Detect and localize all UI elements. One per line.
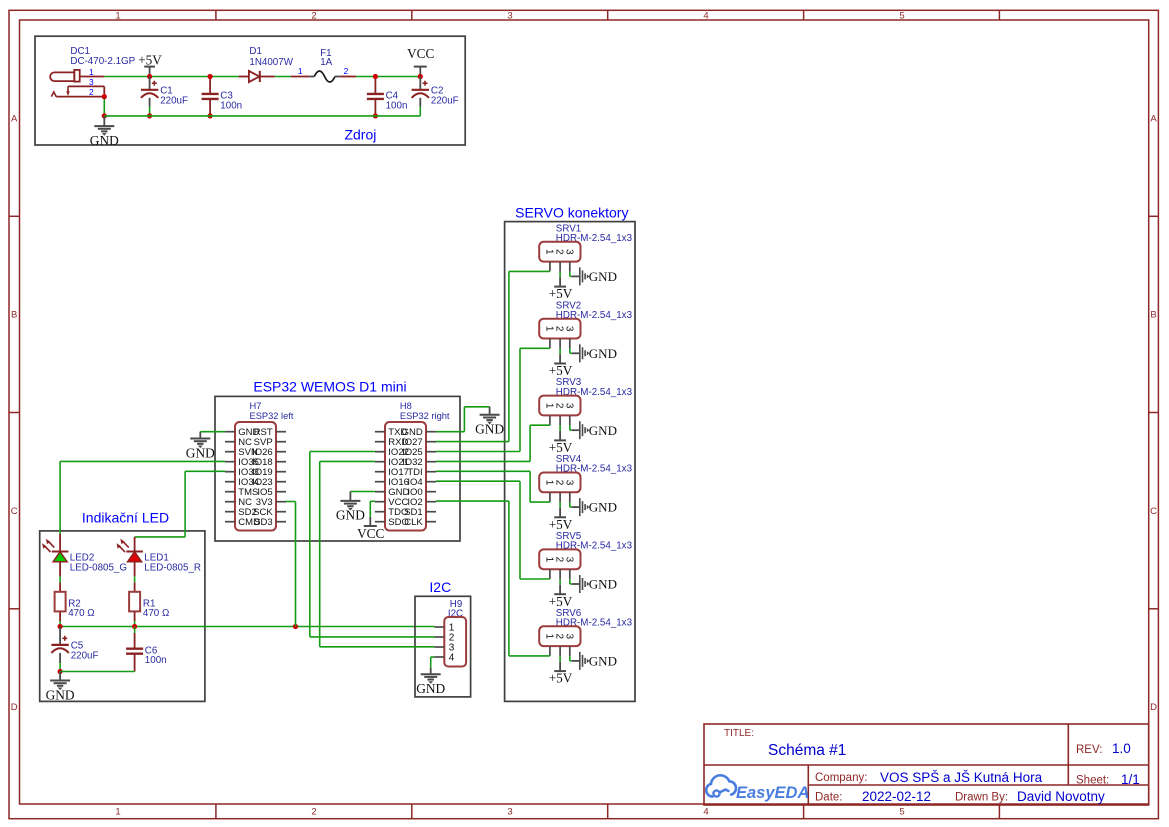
svg-text:+5V: +5V: [549, 363, 573, 378]
svg-text:1: 1: [544, 480, 555, 486]
wire SRV5 pin2 to +5V: [559, 579, 561, 594]
ground GND in LED section: [46, 672, 75, 703]
svg-text:SERVO konektory: SERVO konektory: [515, 205, 628, 221]
svg-text:VCC: VCC: [357, 526, 384, 541]
wire H8 pin1 to GND top right: [436, 407, 490, 432]
wire I2C pin4 to GND: [431, 657, 435, 668]
svg-text:A: A: [1150, 113, 1157, 124]
pin stubs SRV5: [550, 569, 570, 579]
svg-text:EasyEDA: EasyEDA: [736, 784, 809, 802]
LED LED2: [42, 539, 127, 592]
svg-text:GND: GND: [589, 577, 617, 592]
svg-text:1A: 1A: [320, 57, 332, 68]
resistor R2 470R: [55, 592, 95, 627]
wire H8 pin4 to I2C pin3: [320, 461, 435, 646]
svg-text:+5V: +5V: [138, 52, 162, 67]
connector SRV1 HDR-M-2.54_1x3: [539, 223, 632, 261]
svg-text:1: 1: [544, 249, 555, 255]
ground GND right of SRV1: [572, 267, 617, 285]
svg-text:B: B: [11, 310, 17, 321]
svg-text:1: 1: [544, 326, 555, 332]
resistor R1 470R: [129, 592, 169, 627]
svg-text:+5V: +5V: [549, 594, 573, 609]
capacitor C1 220uF: [141, 81, 188, 107]
wire SRV4 pin2 to +5V: [559, 502, 561, 517]
svg-text:1.0: 1.0: [1112, 741, 1131, 756]
wire H8 to SRV2 pin1: [436, 348, 550, 451]
wire SRV3 pin2 to +5V: [559, 425, 561, 440]
power +5V under SRV2: [549, 363, 573, 378]
svg-text:REV:: REV:: [1076, 744, 1102, 756]
svg-text:2: 2: [554, 403, 565, 409]
connector DC1 (barrel jack): [50, 46, 136, 96]
junction VCC: [418, 74, 423, 79]
svg-text:GND: GND: [186, 445, 215, 460]
svg-text:3: 3: [89, 77, 94, 87]
junction ground rail left: [102, 113, 107, 118]
wire H7 pin5 to LED1: [135, 471, 225, 551]
power +5V under SRV4: [549, 517, 573, 532]
svg-text:3: 3: [563, 249, 574, 255]
power VCC under H8: [357, 517, 384, 541]
capacitor C3 100n: [202, 91, 242, 112]
junction +5V: [147, 74, 152, 79]
junction C5 bottom: [58, 669, 63, 674]
svg-text:TITLE:: TITLE:: [724, 728, 754, 739]
section box ESP32: [215, 396, 460, 541]
svg-text:100n: 100n: [220, 100, 242, 111]
pin stubs SRV1: [550, 262, 570, 272]
junction R1 bottom: [132, 624, 137, 629]
svg-text:Sheet:: Sheet:: [1076, 775, 1109, 787]
svg-text:2: 2: [311, 807, 316, 818]
svg-text:1: 1: [544, 403, 555, 409]
wire H7 pin8 3V3 to junction: [286, 502, 296, 627]
svg-text:ESP32 WEMOS D1 mini: ESP32 WEMOS D1 mini: [253, 379, 406, 395]
svg-text:4: 4: [449, 653, 455, 664]
svg-text:+5V: +5V: [549, 671, 573, 686]
ground GND left of H7: [186, 432, 215, 461]
junction R2 bottom: [58, 624, 63, 629]
svg-text:H7: H7: [250, 401, 262, 411]
svg-text:I2C: I2C: [429, 579, 451, 595]
ground GND top right: [475, 407, 504, 437]
wire +5V rail top: [104, 76, 238, 78]
svg-text:1: 1: [544, 634, 555, 640]
svg-text:220uF: 220uF: [160, 95, 188, 106]
wire H8 pin3 to I2C pin2: [310, 452, 435, 637]
svg-text:+5V: +5V: [549, 286, 573, 301]
svg-text:GND: GND: [589, 269, 617, 284]
svg-text:GND: GND: [46, 687, 75, 702]
svg-text:Zdroj: Zdroj: [344, 127, 376, 143]
svg-text:2: 2: [554, 557, 565, 563]
header H7 ESP32 left: [225, 401, 294, 531]
power +5V under SRV6: [549, 671, 573, 686]
pin stubs SRV4: [550, 492, 570, 502]
svg-text:B: B: [1150, 310, 1156, 321]
pin stubs SRV6: [550, 646, 570, 656]
svg-text:ESP32 right: ESP32 right: [400, 411, 450, 421]
connector SRV4 HDR-M-2.54_1x3: [539, 454, 632, 492]
svg-text:Company:: Company:: [815, 772, 867, 784]
wire SRV6 pin2 to +5V: [559, 656, 561, 671]
svg-text:+5V: +5V: [549, 440, 573, 455]
wire F1 to VCC rail: [340, 76, 420, 78]
pin stubs SRV2: [550, 339, 570, 349]
junction C4 bottom: [373, 113, 378, 118]
capacitor C4: [374, 77, 376, 116]
wire H7 pin4 to LED2: [60, 461, 225, 551]
svg-text:ESP32 left: ESP32 left: [250, 411, 294, 421]
LED LED1: [117, 539, 201, 592]
pin stubs SRV3: [550, 415, 570, 425]
wire H8 pin8 to VCC: [370, 501, 375, 517]
svg-text:2: 2: [554, 634, 565, 640]
wire SRV1 pin3 to GND: [570, 272, 572, 277]
svg-text:CLK: CLK: [404, 517, 423, 528]
wire SRV5 pin3 to GND: [570, 579, 572, 584]
wire H7 pin1 to GND: [200, 431, 225, 433]
svg-text:1: 1: [115, 11, 120, 22]
title block: [704, 724, 1149, 805]
wire SRV6 pin3 to GND: [570, 656, 572, 661]
fuse F1 1A: [309, 48, 340, 82]
svg-text:2: 2: [344, 66, 349, 76]
junction C3 bottom: [208, 113, 213, 118]
wire SRV4 pin3 to GND: [570, 502, 572, 507]
svg-text:3: 3: [563, 634, 574, 640]
power +5V under SRV1: [549, 286, 573, 301]
svg-text:GND: GND: [475, 422, 504, 437]
svg-text:100n: 100n: [386, 100, 408, 111]
ground GND right of SRV2: [572, 344, 617, 362]
svg-text:2: 2: [554, 480, 565, 486]
ground GND right of SRV5: [572, 575, 617, 593]
connector SRV6 HDR-M-2.54_1x3: [539, 608, 632, 646]
svg-text:D: D: [11, 702, 18, 713]
wire H8 pin7 to GND: [350, 491, 375, 493]
wire SRV2 pin2 to +5V: [559, 349, 561, 364]
svg-text:D1: D1: [249, 46, 262, 57]
svg-text:Date:: Date:: [815, 792, 843, 804]
power +5V under SRV3: [549, 440, 573, 455]
svg-text:SD3: SD3: [254, 517, 272, 528]
power VCC top: [407, 46, 434, 76]
svg-text:2022-02-12: 2022-02-12: [862, 789, 931, 804]
section box SERVO konektory: [505, 222, 635, 702]
svg-text:1: 1: [298, 66, 303, 76]
svg-text:220uF: 220uF: [431, 95, 459, 106]
svg-text:4: 4: [703, 807, 708, 818]
junction 3V3 node: [293, 624, 298, 629]
junction DC1 pin2: [102, 94, 107, 99]
svg-text:3: 3: [563, 403, 574, 409]
capacitor C6 100n: [126, 645, 166, 666]
wire H8 to SRV4 pin1: [436, 471, 550, 502]
connector SRV2 HDR-M-2.54_1x3: [539, 300, 632, 338]
ground GND under DC1: [90, 116, 119, 148]
svg-text:2: 2: [311, 11, 316, 22]
wire H8 to SRV1 pin1: [436, 271, 550, 441]
svg-text:4: 4: [703, 11, 708, 22]
svg-text:2: 2: [89, 87, 94, 97]
capacitor C3: [209, 77, 211, 116]
junction C1 bottom: [147, 113, 152, 118]
capacitor C2 220uF: [412, 81, 459, 107]
svg-text:3: 3: [563, 557, 574, 563]
svg-text:VOS SPŠ a JŠ Kutná Hora: VOS SPŠ a JŠ Kutná Hora: [880, 770, 1043, 785]
section box Zdroj: [35, 36, 465, 145]
wire C5 bottom: [59, 653, 61, 672]
ground GND right of SRV3: [572, 421, 617, 439]
junction C4 top: [373, 74, 378, 79]
capacitor C2: [419, 77, 421, 90]
ground GND right of SRV6: [572, 652, 617, 670]
wire DC1 pin2 to ground rail: [103, 97, 105, 116]
svg-text:GND: GND: [589, 346, 617, 361]
svg-text:GND: GND: [90, 133, 119, 148]
svg-text:1: 1: [115, 807, 120, 818]
capacitor C5: [59, 627, 61, 645]
wire H8 to SRV3 pin1: [436, 425, 550, 461]
wire D1 to F1: [275, 76, 309, 78]
svg-text:3: 3: [563, 480, 574, 486]
header H9 I2C: [434, 599, 466, 667]
wire SRV2 pin3 to GND: [570, 349, 572, 354]
svg-text:LED-0805_G: LED-0805_G: [70, 563, 127, 574]
section box Indikacni LED: [40, 531, 205, 702]
wire ground rail bottom: [104, 115, 420, 117]
svg-text:Drawn By:: Drawn By:: [955, 792, 1008, 804]
capacitor C1: [149, 77, 151, 90]
svg-text:GND: GND: [589, 654, 617, 669]
svg-text:470 Ω: 470 Ω: [68, 608, 94, 619]
capacitor C6: [134, 627, 136, 672]
wire C2 bottom: [419, 98, 421, 116]
svg-text:1: 1: [544, 557, 555, 563]
svg-text:3: 3: [563, 326, 574, 332]
header H8 ESP32 right: [375, 401, 450, 531]
capacitor C4 100n: [367, 91, 407, 112]
svg-text:C: C: [1150, 506, 1157, 517]
svg-text:220uF: 220uF: [71, 651, 99, 662]
svg-text:D: D: [1150, 702, 1157, 713]
wire H8 to SRV6 pin1: [436, 501, 550, 656]
section box I2C: [415, 596, 471, 697]
svg-text:A: A: [11, 113, 18, 124]
wire SRV3 pin3 to GND: [570, 425, 572, 430]
ground GND right of SRV4: [572, 498, 617, 516]
junction C3 top: [208, 74, 213, 79]
connector SRV3 HDR-M-2.54_1x3: [539, 377, 632, 415]
wire H8 to SRV5 pin1: [436, 481, 550, 579]
svg-text:470 Ω: 470 Ω: [143, 608, 169, 619]
svg-text:GND: GND: [416, 681, 445, 696]
power +5V: [138, 52, 162, 76]
svg-text:1N4007W: 1N4007W: [249, 57, 293, 68]
wire C5/C6 bottom rail: [60, 671, 135, 673]
svg-text:Schéma #1: Schéma #1: [768, 742, 846, 759]
svg-text:2: 2: [554, 249, 565, 255]
svg-text:GND: GND: [589, 500, 617, 515]
svg-text:GND: GND: [589, 423, 617, 438]
svg-text:GND: GND: [336, 508, 365, 523]
svg-text:Indikační LED: Indikační LED: [82, 509, 169, 525]
wire C1 bottom: [149, 98, 151, 116]
power +5V under SRV5: [549, 594, 573, 609]
svg-text:5: 5: [899, 807, 904, 818]
EasyEDA logo: [706, 775, 809, 802]
diode D1 1N4007W: [239, 46, 294, 82]
svg-text:+5V: +5V: [549, 517, 573, 532]
ground GND left of H8: [336, 492, 365, 523]
svg-text:3: 3: [507, 11, 512, 22]
ground GND under I2C: [416, 668, 445, 696]
svg-text:H8: H8: [400, 401, 412, 411]
svg-text:C: C: [11, 506, 18, 517]
svg-text:LED-0805_R: LED-0805_R: [144, 563, 201, 574]
svg-text:1/1: 1/1: [1121, 772, 1140, 787]
svg-text:VCC: VCC: [407, 46, 434, 61]
connector SRV5 HDR-M-2.54_1x3: [539, 531, 632, 569]
wire R1/R2 junction row to I2C pin1: [60, 626, 434, 628]
svg-text:3: 3: [507, 807, 512, 818]
svg-text:David Novotny: David Novotny: [1017, 789, 1105, 804]
svg-text:5: 5: [899, 11, 904, 22]
capacitor C5 220uF: [51, 636, 98, 662]
wire SRV1 pin2 to +5V: [559, 272, 561, 287]
svg-text:2: 2: [554, 326, 565, 332]
svg-text:1: 1: [89, 67, 94, 77]
svg-text:100n: 100n: [145, 655, 167, 666]
svg-text:DC-470-2.1GP: DC-470-2.1GP: [70, 56, 135, 67]
